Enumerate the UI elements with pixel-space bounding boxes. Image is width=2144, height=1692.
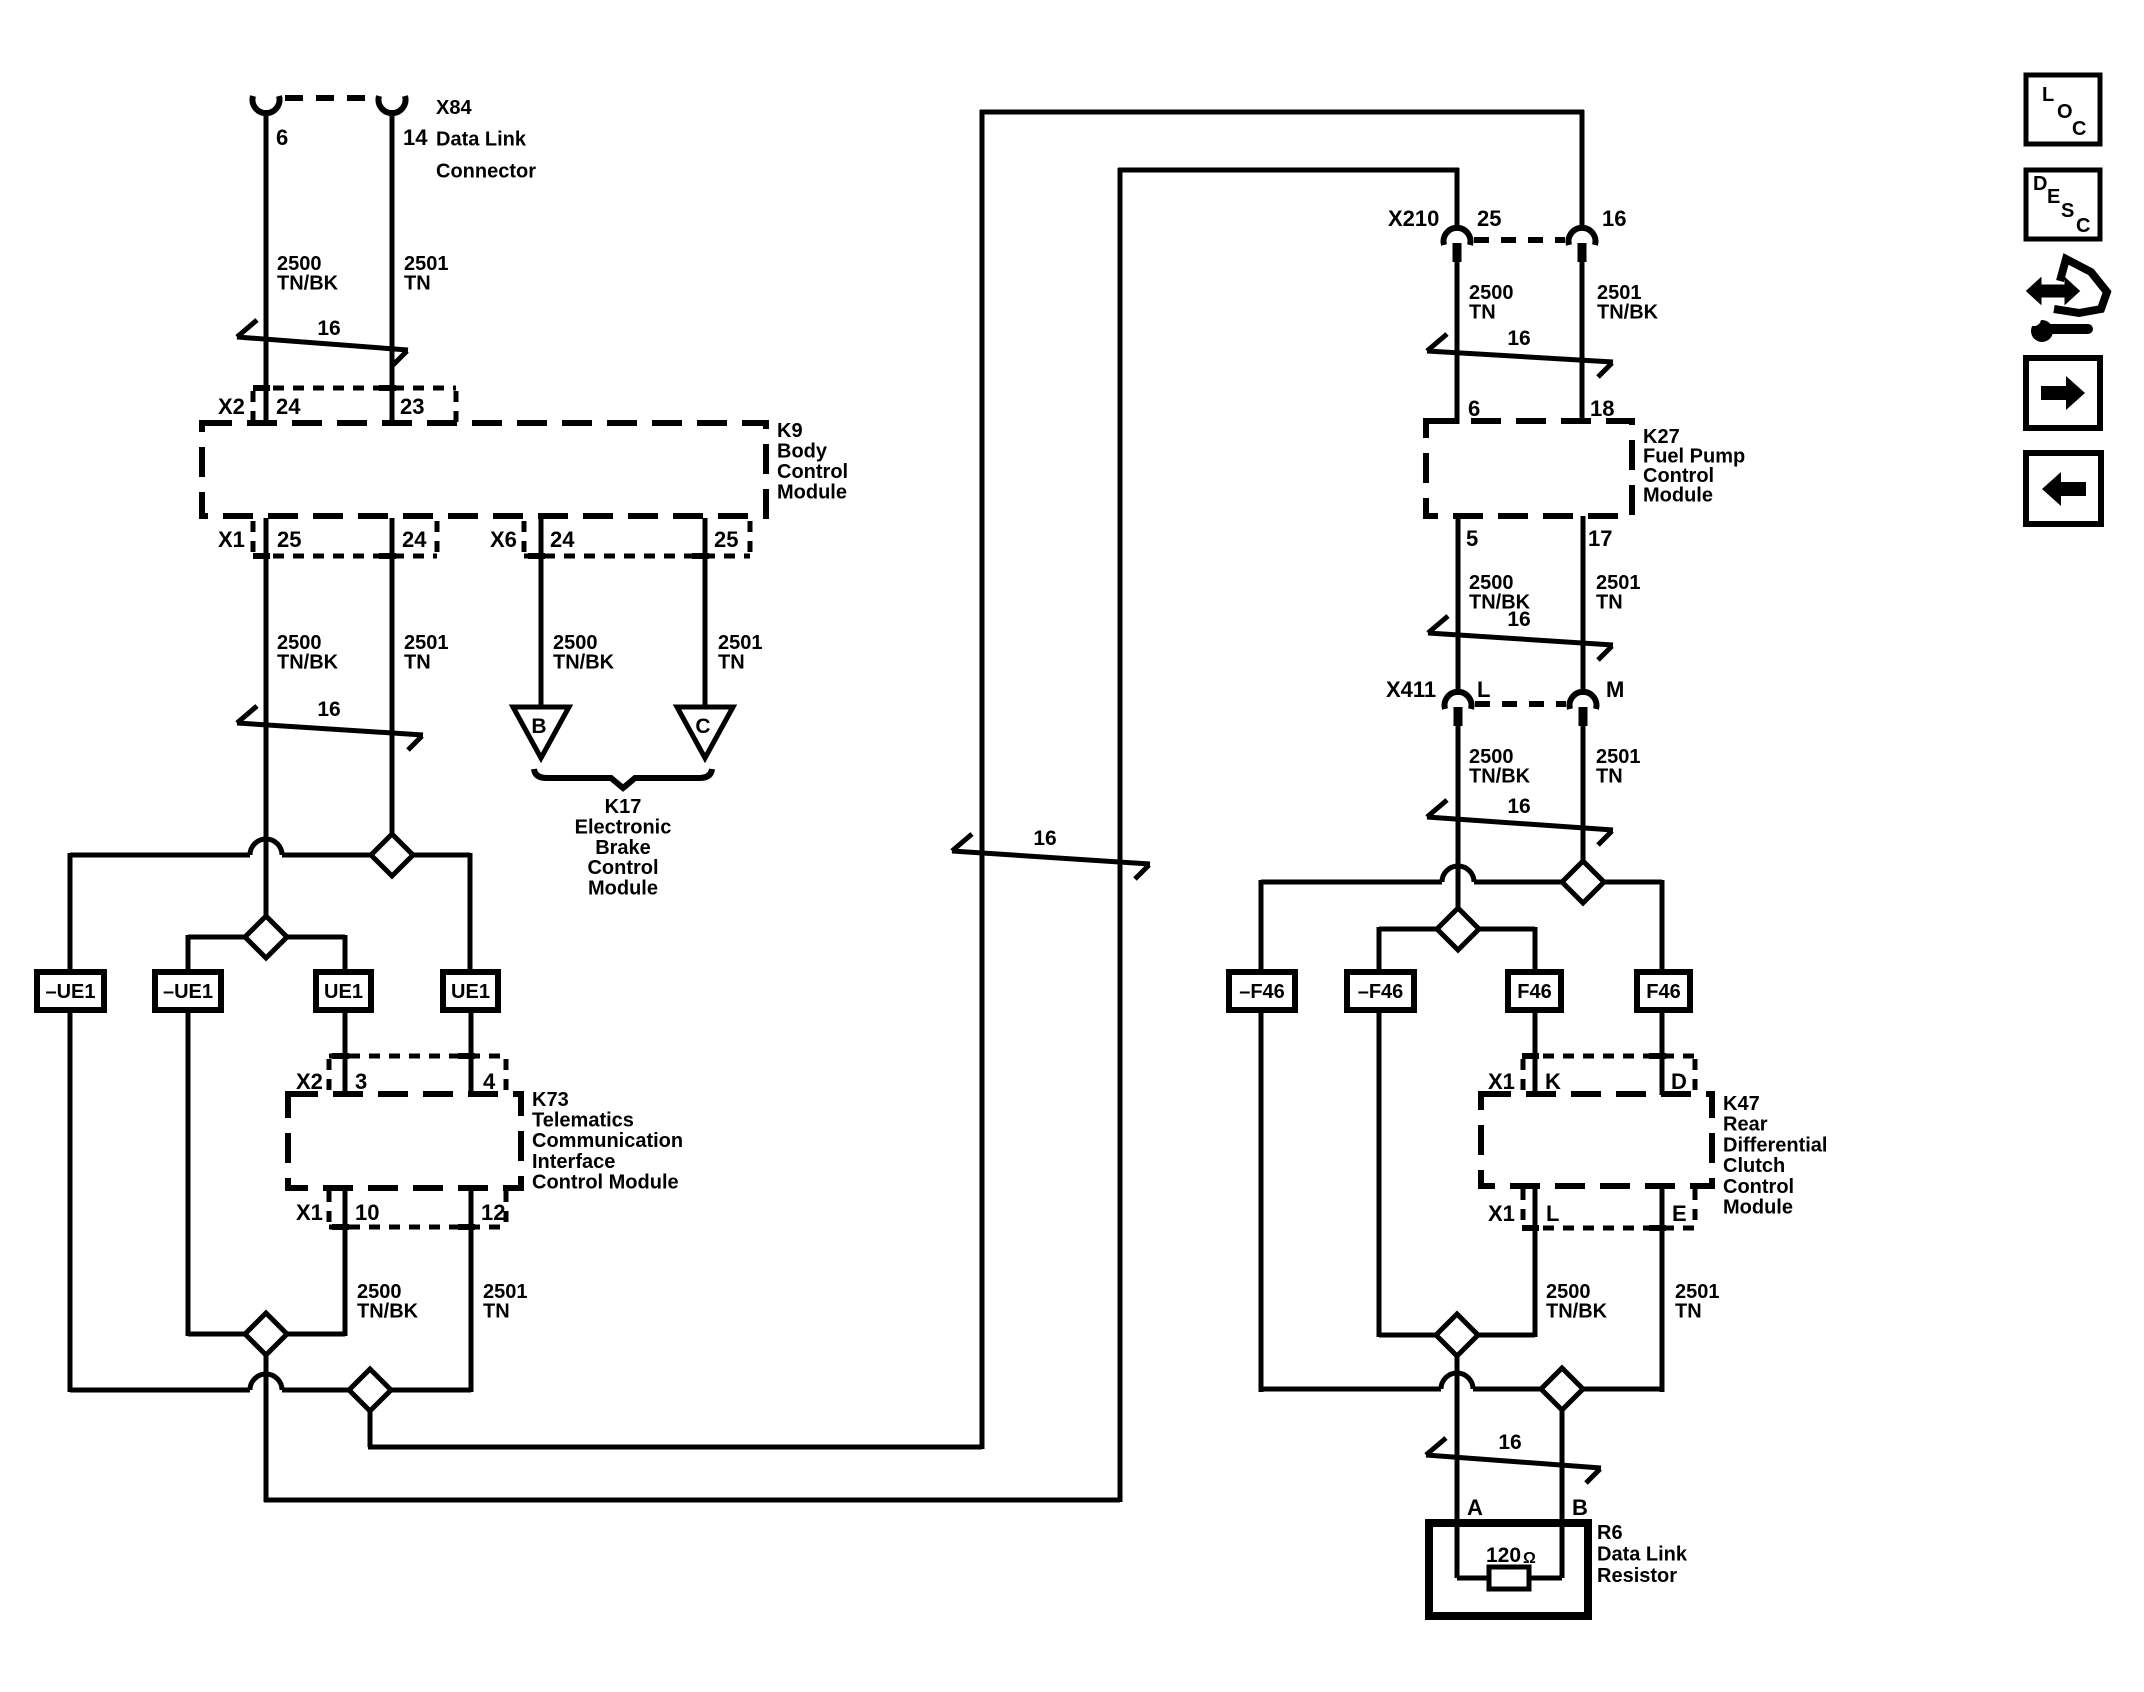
svg-text:16: 16 — [317, 698, 340, 721]
svg-text:16: 16 — [1602, 206, 1626, 231]
svg-text:Ω: Ω — [1523, 1550, 1536, 1567]
svg-text:K73: K73 — [532, 1089, 569, 1111]
wire drop to F46 d — [1660, 880, 1665, 974]
wire drop to -F46 b — [1377, 927, 1382, 974]
bus wire 2500 bottom right horizontal a — [1379, 1333, 1438, 1338]
junction diamond 2500 right — [1437, 908, 1479, 950]
svg-text:E: E — [1672, 1201, 1687, 1226]
svg-text:23: 23 — [400, 394, 424, 419]
connector X84 arc pin 6 — [253, 96, 280, 113]
connector row X1 bottom of K47 — [1523, 1226, 1695, 1231]
pin tick K73 X2-4 — [458, 1053, 475, 1059]
wire 2501 drop from junction — [368, 1409, 373, 1447]
resistor R6 internal wiring — [1457, 1576, 1491, 1581]
svg-text:UE1: UE1 — [324, 981, 363, 1003]
wire drop to -F46 a — [1259, 880, 1264, 974]
svg-text:Control: Control — [587, 857, 658, 879]
icon DESC box — [2026, 170, 2100, 239]
icon forward arrow box — [2026, 358, 2100, 428]
bus wire 2501 long horizontal — [368, 1445, 982, 1450]
wire 2501 riser — [980, 110, 985, 1449]
bus wire 2501 horizontal to junction — [282, 853, 373, 858]
wire 2500 TN/BK from X84 pin 6 to K9 — [264, 110, 269, 424]
junction diamond 2500 lower left — [245, 1313, 287, 1355]
svg-text:C: C — [695, 715, 710, 738]
gauge 16 crossing right lower — [1427, 800, 1613, 845]
terminal stub X210-25 — [1453, 243, 1462, 262]
svg-text:24: 24 — [550, 527, 575, 552]
svg-text:Interface: Interface — [532, 1151, 615, 1173]
connector row X2 of K9 — [253, 386, 456, 391]
svg-text:Communication: Communication — [532, 1130, 683, 1152]
bus wire 2500 long horizontal — [264, 1498, 1120, 1503]
svg-text:Data Link: Data Link — [1597, 1544, 1688, 1566]
svg-text:10: 10 — [355, 1200, 379, 1225]
svg-text:B: B — [1572, 1495, 1588, 1520]
svg-text:24: 24 — [276, 394, 301, 419]
module K27 Fuel Pump Control Module box — [1426, 421, 1632, 516]
hop of 2501 bus over 2500 right — [1442, 866, 1474, 882]
icon back arrow box — [2026, 453, 2101, 524]
svg-text:–F46: –F46 — [1239, 981, 1285, 1003]
splice -UE1 b — [155, 972, 221, 1010]
svg-text:UE1: UE1 — [451, 981, 490, 1003]
bus wire 2500 right horizontal b — [1477, 927, 1535, 932]
wire 2500 drop to R6 A — [1455, 1354, 1460, 1578]
svg-text:A: A — [1467, 1495, 1483, 1520]
bus wire 2501 bottom horizontal c — [1581, 1387, 1662, 1392]
svg-text:24: 24 — [402, 527, 427, 552]
pin tick K73 X1-12 — [458, 1224, 475, 1230]
hop of 2501 lower bus over 2500 — [250, 1374, 282, 1390]
terminal triangle C — [677, 707, 733, 758]
svg-text:TN/BK: TN/BK — [277, 652, 339, 674]
hop of 2501 bottom bus over 2500 — [1441, 1373, 1473, 1389]
svg-text:6: 6 — [276, 125, 288, 150]
connector X210 dashed link — [1474, 237, 1565, 243]
icon LOC box — [2026, 75, 2100, 144]
connector X84 arc pin 14 — [379, 96, 406, 113]
junction diamond 2501 lower left — [349, 1369, 391, 1411]
svg-text:Differential: Differential — [1723, 1134, 1827, 1156]
connector row X1 of K9 — [253, 554, 437, 559]
pin tick K47 X1-L — [1522, 1225, 1539, 1231]
svg-text:25: 25 — [277, 527, 301, 552]
svg-text:X6: X6 — [490, 527, 517, 552]
wire from -UE1 b down — [186, 1010, 191, 1336]
svg-text:16: 16 — [1507, 608, 1530, 631]
terminal stub X411-M — [1579, 707, 1588, 726]
brace for K17 — [534, 769, 712, 788]
svg-text:TN/BK: TN/BK — [1597, 302, 1659, 324]
svg-text:18: 18 — [1590, 396, 1614, 421]
svg-text:X2: X2 — [296, 1069, 323, 1094]
wire 2500 TN/BK from K47 L — [1533, 1186, 1538, 1337]
svg-text:C: C — [2072, 118, 2086, 140]
wire from -F46 a down — [1259, 1010, 1264, 1392]
svg-text:L: L — [1477, 677, 1490, 702]
svg-text:14: 14 — [403, 125, 428, 150]
svg-text:X1: X1 — [296, 1200, 323, 1225]
splice -UE1 a — [37, 972, 104, 1010]
bus wire 2500 right horizontal a — [1379, 927, 1439, 932]
svg-text:TN/BK: TN/BK — [1546, 1301, 1608, 1323]
connector X210 arc pin 25 — [1444, 228, 1471, 245]
connector X411 arc pin L — [1445, 692, 1472, 709]
bus wire 2501 lower to pin12 — [389, 1388, 471, 1393]
bus wire 2500 bottom right horizontal b — [1476, 1333, 1535, 1338]
svg-text:16: 16 — [1033, 827, 1056, 850]
wire drop to F46 c — [1533, 927, 1538, 974]
wire 2500 TN from X210-25 to K27 — [1455, 262, 1460, 424]
svg-text:X1: X1 — [1488, 1201, 1515, 1226]
wire from UE1 d to K73 pin 4 — [469, 1010, 474, 1095]
svg-text:Clutch: Clutch — [1723, 1155, 1785, 1177]
icon double arrow with wrench — [2028, 280, 2078, 302]
bus wire 2501 right horizontal a — [1261, 880, 1442, 885]
svg-text:S: S — [2061, 200, 2074, 222]
terminal stub X411-L — [1454, 707, 1463, 726]
svg-text:M: M — [1606, 677, 1624, 702]
module K9 Body Control Module box — [202, 423, 766, 516]
bus wire 2500 horizontal right — [285, 935, 345, 940]
svg-text:16: 16 — [1507, 327, 1530, 350]
terminal stub X210-16 — [1578, 243, 1587, 262]
wire from F46 d to K47 pin D — [1660, 1010, 1665, 1095]
wire 2501 TN from K9 X6-25 to K17 — [703, 518, 708, 709]
wire 2500 TN/BK from K9 X1-25 — [264, 518, 269, 918]
svg-text:L: L — [1546, 1201, 1559, 1226]
svg-text:5: 5 — [1466, 526, 1478, 551]
wire 2501 top horizontal — [980, 110, 1584, 115]
svg-text:6: 6 — [1468, 396, 1480, 421]
pin tick X1-25 — [253, 553, 270, 559]
svg-text:–UE1: –UE1 — [45, 981, 95, 1003]
svg-text:Data Link: Data Link — [436, 129, 527, 151]
junction diamond 2501 right — [1562, 861, 1604, 903]
bus wire 2501 bottom horizontal b — [1473, 1387, 1543, 1392]
svg-text:C: C — [2076, 215, 2090, 237]
connector X411 dashed link — [1475, 701, 1566, 707]
wire from UE1 c to K73 pin 3 — [343, 1010, 348, 1095]
connector row X2 of K73 — [329, 1054, 506, 1059]
wire 2501 drop to X210 pin 16 — [1580, 110, 1585, 230]
wire 2501 TN from X84 pin 14 to K9 — [390, 110, 395, 424]
module K73 Telematics Communication Interface Control Module box — [288, 1094, 521, 1188]
svg-text:X1: X1 — [218, 527, 245, 552]
pin tick K47 X1-K — [1522, 1053, 1539, 1059]
pin tick X2-23 — [379, 385, 396, 391]
connector X411 arc pin M — [1569, 692, 1596, 709]
splice -F46 b — [1347, 972, 1414, 1010]
bus wire 2500 horizontal left — [188, 935, 247, 940]
splice -F46 a — [1229, 972, 1295, 1010]
svg-text:Module: Module — [1723, 1197, 1793, 1219]
wire from F46 c to K47 pin K — [1533, 1010, 1538, 1095]
svg-text:O: O — [2057, 101, 2073, 123]
svg-text:TN: TN — [404, 273, 431, 295]
svg-text:Electronic: Electronic — [575, 816, 672, 838]
bus wire 2501 right horizontal c — [1602, 880, 1662, 885]
svg-text:–F46: –F46 — [1358, 981, 1404, 1003]
pin tick X6-25 — [692, 553, 709, 559]
wire 2501 TN from K27-17 — [1581, 516, 1586, 695]
wire 2500 drop to X210 pin 25 — [1455, 168, 1460, 230]
svg-text:TN: TN — [1596, 766, 1623, 788]
wire 2501 TN from X411-M — [1581, 726, 1586, 863]
wire drop to UE1 fourth — [468, 853, 473, 974]
module K47 Rear Differential Clutch Control Module box — [1481, 1094, 1712, 1186]
svg-text:Connector: Connector — [436, 160, 536, 182]
svg-text:L: L — [2042, 84, 2054, 106]
gauge 16 crossing bottom — [1426, 1438, 1601, 1483]
svg-text:12: 12 — [481, 1200, 505, 1225]
gauge 16 crossing right upper — [1427, 334, 1613, 377]
svg-text:D: D — [2033, 173, 2047, 195]
splice F46 c — [1508, 972, 1561, 1010]
pin tick K47 X1-E — [1649, 1225, 1666, 1231]
svg-text:K: K — [1545, 1069, 1561, 1094]
connector row X1 top of K47 — [1523, 1054, 1695, 1059]
svg-text:TN: TN — [404, 652, 431, 674]
pin tick K73 X1-10 — [332, 1224, 349, 1230]
gauge 16 crossing centre risers — [952, 834, 1150, 879]
wire 2500 TN/BK from K9 X6-24 to K17 — [539, 518, 544, 709]
svg-text:F46: F46 — [1646, 981, 1680, 1003]
svg-text:TN: TN — [483, 1301, 510, 1323]
svg-text:Control: Control — [777, 461, 848, 483]
bus wire 2500 lower to pin10 — [285, 1332, 345, 1337]
resistor R6 element — [1489, 1567, 1529, 1589]
wire 2500 TN/BK from K73 X1-10 — [343, 1188, 348, 1336]
pin tick X1-24 — [379, 553, 396, 559]
pin tick K47 X1-D — [1649, 1053, 1666, 1059]
junction diamond 2500 bottom right — [1436, 1314, 1478, 1356]
wire 2501 drop to R6 B — [1560, 1408, 1565, 1578]
splice UE1 c — [316, 972, 371, 1010]
gauge 16 crossing lower left — [237, 706, 423, 750]
connector row X6 of K9 — [524, 554, 750, 559]
svg-text:TN/BK: TN/BK — [1469, 766, 1531, 788]
svg-text:TN: TN — [718, 652, 745, 674]
svg-text:K47: K47 — [1723, 1093, 1760, 1115]
svg-text:X2: X2 — [218, 394, 245, 419]
svg-text:120: 120 — [1486, 1544, 1521, 1567]
svg-text:F46: F46 — [1517, 981, 1551, 1003]
wire from -F46 b down — [1377, 1010, 1382, 1337]
gauge 16 crossing upper left — [237, 320, 408, 365]
wire from -UE1 a down — [68, 1010, 73, 1392]
svg-text:X84: X84 — [436, 97, 472, 119]
svg-text:R6: R6 — [1597, 1522, 1623, 1544]
wire 2500 top horizontal — [1118, 168, 1459, 173]
wire 2501 TN/BK from X210-16 to K27 — [1580, 262, 1585, 424]
svg-text:Brake: Brake — [595, 837, 651, 859]
svg-text:Control Module: Control Module — [532, 1171, 679, 1193]
wire 2500 TN/BK from K27-5 — [1456, 516, 1461, 695]
splice F46 d — [1637, 972, 1690, 1010]
svg-text:16: 16 — [1507, 795, 1530, 818]
svg-text:Module: Module — [777, 482, 847, 504]
svg-text:X1: X1 — [1488, 1069, 1515, 1094]
bus wire 2501 horizontal upper — [70, 853, 250, 858]
svg-text:D: D — [1671, 1069, 1687, 1094]
wire 2500 TN/BK from X411-L — [1456, 726, 1461, 910]
svg-text:K9: K9 — [777, 420, 803, 442]
wire 2501 TN from K47 E — [1660, 1186, 1665, 1392]
svg-text:TN/BK: TN/BK — [277, 273, 339, 295]
svg-text:Resistor: Resistor — [1597, 1565, 1677, 1587]
bus wire 2500 lower horizontal — [188, 1332, 247, 1337]
bus wire 2501 to UE1 drop — [411, 853, 470, 858]
svg-text:Module: Module — [1643, 485, 1713, 507]
wire 2501 TN from K9 X1-24 — [390, 518, 395, 836]
svg-text:Rear: Rear — [1723, 1114, 1768, 1136]
terminal triangle B — [513, 707, 569, 758]
svg-text:–UE1: –UE1 — [163, 981, 213, 1003]
svg-text:Body: Body — [777, 441, 828, 463]
svg-text:TN/BK: TN/BK — [357, 1301, 419, 1323]
svg-text:TN: TN — [1596, 592, 1623, 614]
connector row X1 of K73 — [329, 1225, 506, 1230]
bus wire 2501 bottom horizontal a — [1261, 1387, 1441, 1392]
pin tick X6-24 — [528, 553, 545, 559]
svg-text:E: E — [2047, 186, 2060, 208]
svg-text:TN/BK: TN/BK — [553, 652, 615, 674]
wire drop to UE1 third — [343, 935, 348, 974]
svg-text:25: 25 — [714, 527, 738, 552]
splice UE1 d — [443, 972, 498, 1010]
svg-text:Telematics: Telematics — [532, 1110, 634, 1132]
svg-text:16: 16 — [1498, 1431, 1521, 1454]
wire drop to -UE1 second — [186, 935, 191, 974]
pin tick X2-24 — [253, 385, 270, 391]
resistor R6 box — [1429, 1523, 1588, 1616]
bus wire 2501 right horizontal b — [1474, 880, 1564, 885]
wire 2500 riser segment — [264, 1353, 269, 1502]
svg-text:B: B — [531, 715, 546, 738]
svg-text:X210: X210 — [1388, 206, 1439, 231]
svg-text:Module: Module — [588, 878, 658, 900]
connector X84 dashed link — [285, 95, 374, 101]
connector X210 arc pin 16 — [1568, 228, 1595, 245]
pin tick K73 X2-3 — [332, 1053, 349, 1059]
hop of 2501 bus over 2500 wire — [250, 839, 282, 855]
wire 2500 riser — [1118, 168, 1123, 1502]
svg-text:TN: TN — [1469, 302, 1496, 324]
wire drop to -UE1 first — [68, 853, 73, 974]
svg-text:TN: TN — [1675, 1301, 1702, 1323]
gauge 16 crossing right mid — [1428, 616, 1613, 660]
svg-text:3: 3 — [355, 1069, 367, 1094]
junction diamond 2501/K9-24 — [371, 834, 413, 876]
bus wire 2501 lower horizontal b — [282, 1388, 351, 1393]
svg-text:K17: K17 — [605, 796, 642, 818]
svg-text:Control: Control — [1723, 1176, 1794, 1198]
svg-text:16: 16 — [317, 317, 340, 340]
svg-text:25: 25 — [1477, 206, 1501, 231]
svg-text:17: 17 — [1588, 526, 1612, 551]
junction diamond 2501 bottom right — [1541, 1368, 1583, 1410]
svg-text:4: 4 — [483, 1069, 496, 1094]
wire 2501 TN from K73 X1-12 — [469, 1188, 474, 1392]
junction diamond 2500/K9-25 — [245, 916, 287, 958]
svg-text:X411: X411 — [1386, 677, 1436, 702]
bus wire 2501 lower horizontal a — [70, 1388, 250, 1393]
